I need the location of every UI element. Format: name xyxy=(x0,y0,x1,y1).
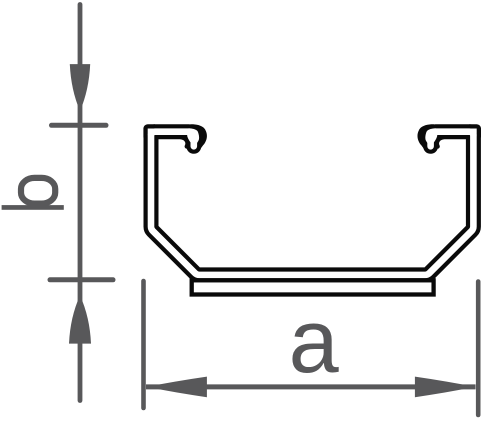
svg-text:a: a xyxy=(289,292,340,392)
